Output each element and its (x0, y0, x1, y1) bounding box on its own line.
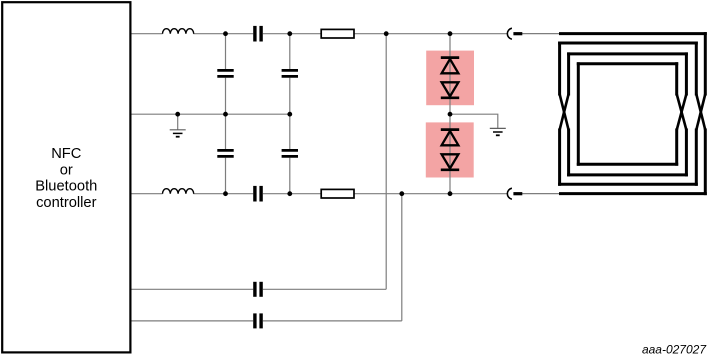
wire C5 to riser A (263, 288, 386, 290)
capacitor C6 series RX2 (255, 313, 261, 328)
wire riser B vertical (401, 194, 403, 321)
wire RX2 from controller to C6 (130, 320, 253, 322)
svg-text:NFC: NFC (51, 146, 82, 162)
node junction TX2/riser B (399, 191, 404, 196)
wire L2 to C2 (194, 193, 254, 195)
connector J2 pin bar (513, 192, 522, 195)
wire shunt branch 1 upper (225, 34, 227, 69)
node junction VMID/shunt1 (223, 112, 228, 117)
node junction TX1/shunt1 (223, 31, 228, 36)
node junction TX1/shunt2 (287, 31, 292, 36)
connector J1 pin bar (513, 32, 522, 35)
diode clamp highlight block 1 (426, 51, 474, 106)
wire ground stub 1 (177, 114, 179, 129)
capacitor C2 series bottom (255, 186, 261, 202)
wire L1 to C1 (194, 33, 254, 35)
capacitor C4b shunt branch2 lower (282, 150, 298, 156)
svg-text:or: or (60, 162, 73, 178)
connector J2 socket arc (507, 188, 512, 199)
wire R1 to connector J1 (354, 33, 507, 35)
inductor L1 (163, 29, 194, 34)
node junction TX1/riser A (384, 31, 389, 36)
wire shunt branch 1 middle (225, 78, 227, 149)
wire TX2 from controller to L2 (130, 193, 162, 195)
inductor L2 (163, 189, 194, 194)
diode D1 (block 1 upper, cathode up) (441, 58, 459, 74)
diode D3 (block 2 upper, cathode up) (441, 130, 459, 146)
diode D2 (block 1 lower, cathode down) (441, 82, 459, 98)
wire J2 to antenna bottom feed (522, 193, 562, 195)
wire R2 to connector J2 (354, 193, 507, 195)
NFC/Bluetooth controller U1 (2, 2, 130, 352)
node junction diode midpoint (448, 112, 453, 117)
wire TX1 from controller to L1 (130, 33, 162, 35)
wire C2 to R2 (263, 193, 321, 195)
node junction TX2/shunt2 (287, 191, 292, 196)
wire RX1 from controller to C5 (130, 288, 253, 290)
wire VMID middle line from controller (130, 113, 289, 115)
node junction TX1/diode branch (448, 31, 453, 36)
resistor R2 (321, 189, 354, 198)
wire riser A vertical (385, 34, 387, 290)
capacitor C3b shunt branch1 lower (217, 150, 233, 156)
capacitor C3a shunt branch1 upper (217, 70, 233, 76)
wire diode midpoint to ground 2 (450, 114, 498, 128)
svg-text:aaa-027027: aaa-027027 (642, 343, 707, 357)
wire shunt branch 1 lower (225, 158, 227, 194)
diode clamp highlight block 2 (426, 122, 474, 177)
wire shunt branch 2 lower (289, 158, 291, 194)
capacitor C5 series RX1 (255, 282, 261, 297)
antenna coil ANT1 (560, 34, 706, 194)
antenna crossover right inner (677, 94, 687, 130)
connector J1 socket arc (507, 28, 512, 39)
capacitor C4a shunt branch2 upper (282, 70, 298, 76)
node junction TX2/diode branch (448, 191, 453, 196)
ground GND1 (170, 130, 186, 137)
capacitor C1 series top (255, 26, 261, 42)
antenna crossover left (560, 94, 569, 130)
wire C1 to R1 (263, 33, 321, 35)
wire shunt branch 2 middle (289, 78, 291, 149)
ground GND2 (490, 128, 506, 135)
node junction VMID/ground 1 (175, 112, 180, 117)
wire C6 to riser B (263, 320, 402, 322)
node junction TX2/shunt1 (223, 191, 228, 196)
wire shunt branch 2 upper (289, 34, 291, 69)
wire diode branch vertical (449, 34, 451, 194)
diode D4 (block 2 lower, cathode down) (441, 154, 459, 170)
wire J1 to antenna top feed (522, 33, 562, 35)
resistor R1 (321, 29, 354, 38)
antenna crossover right outer (696, 94, 705, 130)
svg-text:Bluetooth: Bluetooth (35, 179, 97, 195)
svg-text:controller: controller (36, 195, 97, 211)
node junction VMID/shunt2 (287, 112, 292, 117)
